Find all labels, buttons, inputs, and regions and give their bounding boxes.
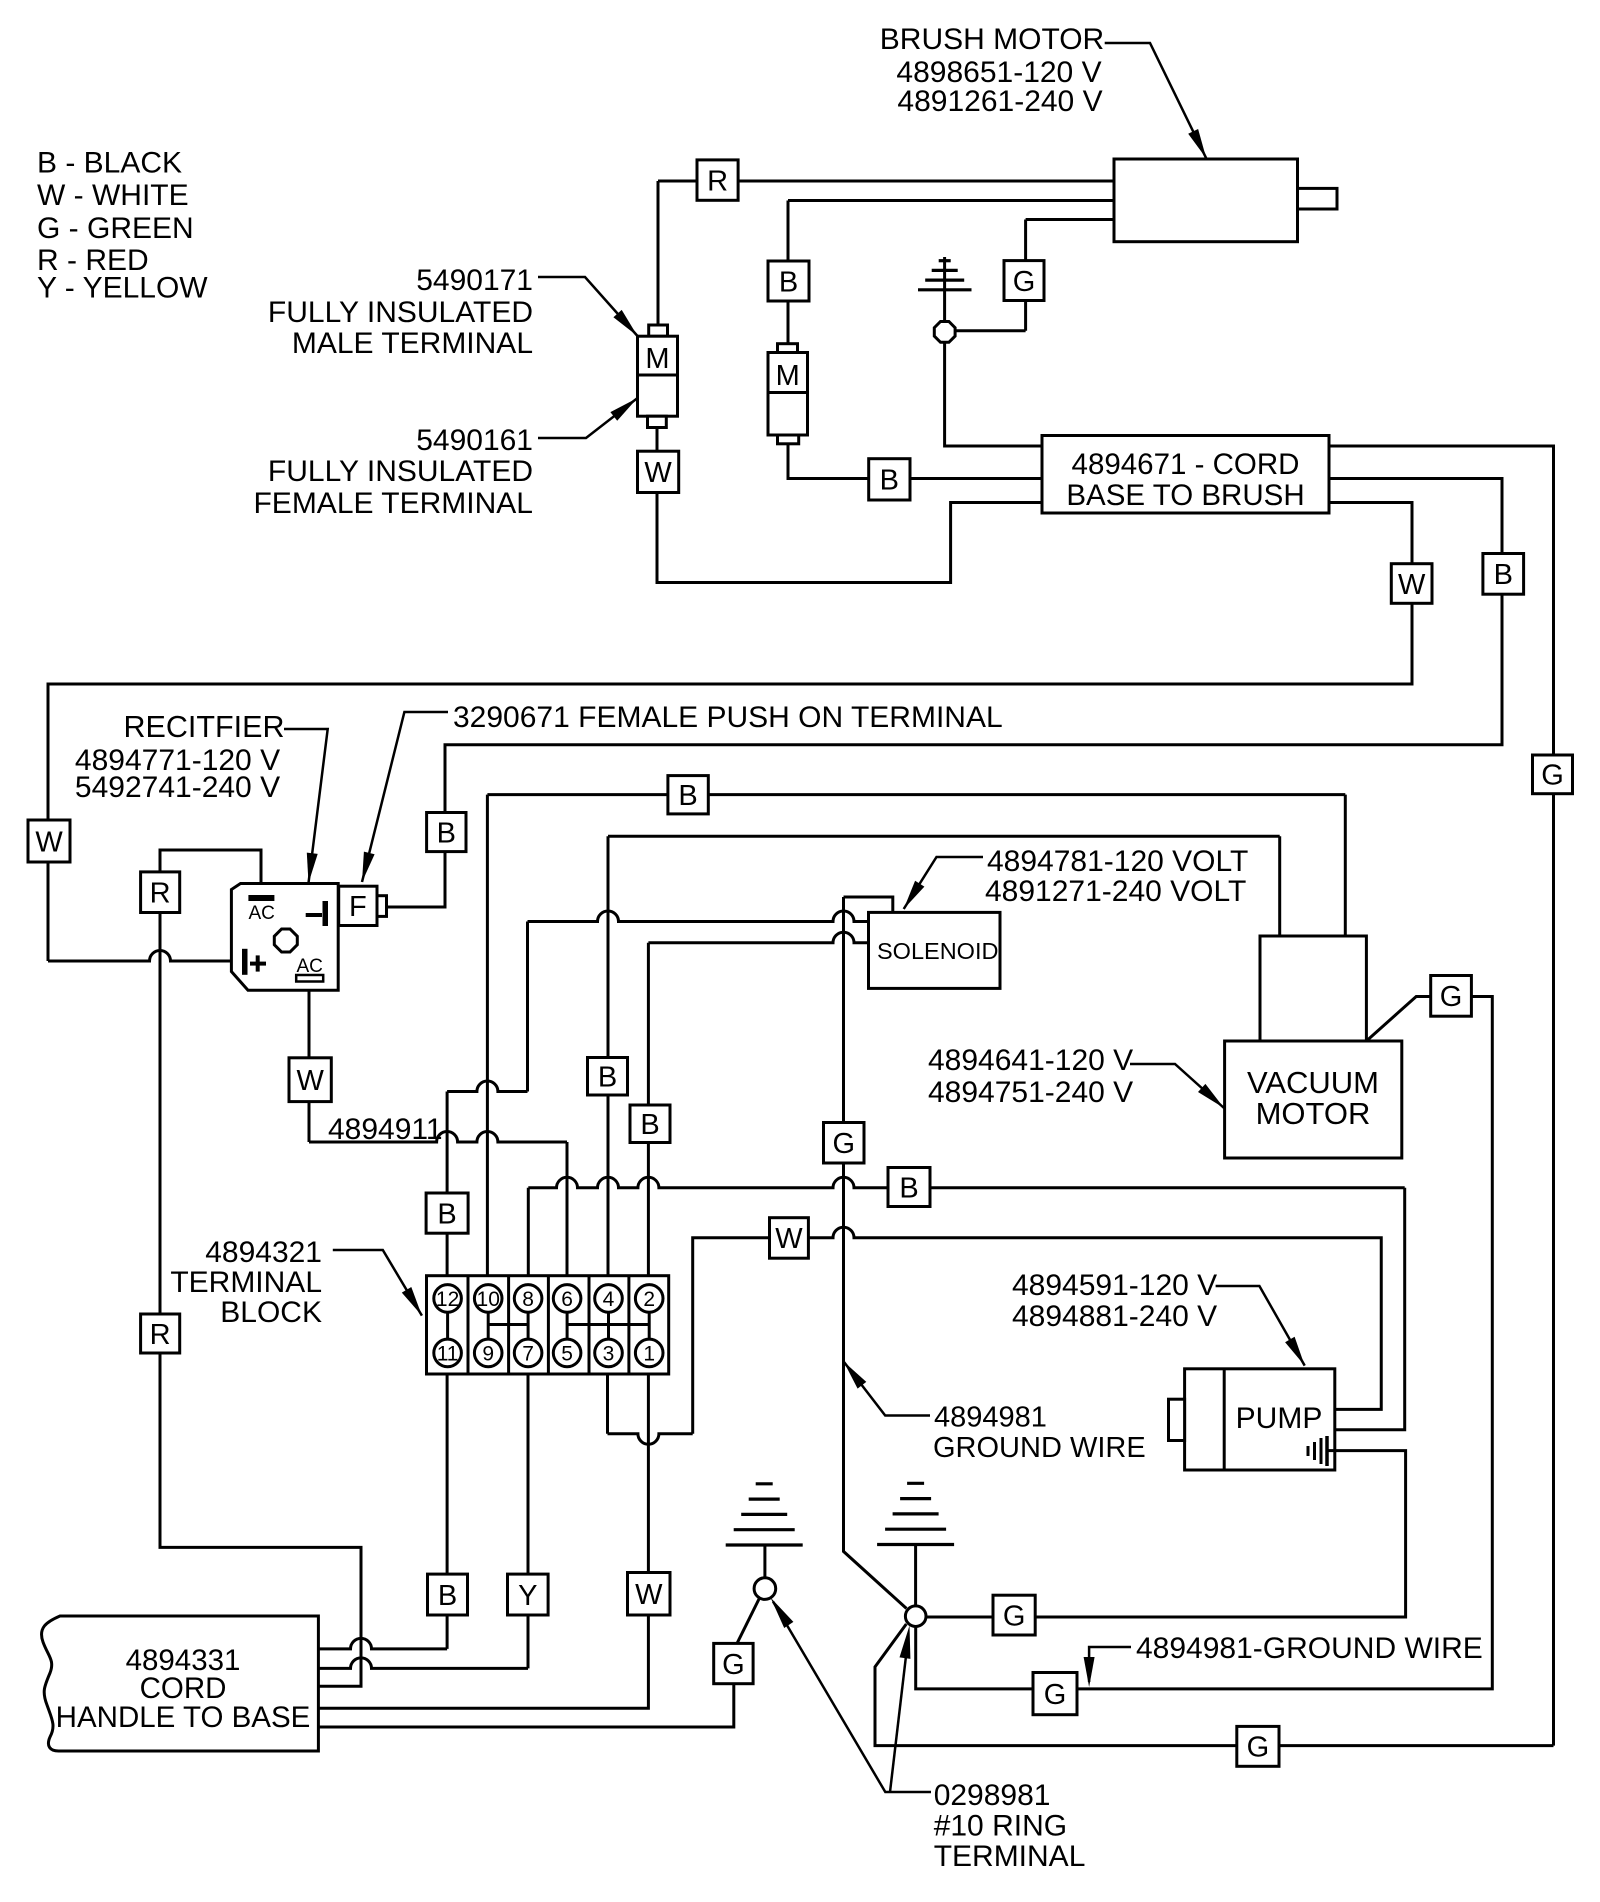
terminal 5490171 male cap bbox=[649, 325, 668, 336]
svg-text:4894751-240 V: 4894751-240 V bbox=[928, 1076, 1133, 1109]
wire black to cord handle box jump red bbox=[318, 1638, 447, 1649]
svg-text:BLOCK: BLOCK bbox=[220, 1296, 322, 1329]
wire black vacuum motor feed 1 bbox=[1344, 795, 1347, 937]
rectifier minus terminal bbox=[306, 913, 322, 917]
wire black col1 riser bbox=[446, 1092, 449, 1286]
leader ring terminal left bbox=[773, 1602, 931, 1793]
label box G vacuum bbox=[1431, 976, 1472, 1017]
svg-text:G: G bbox=[832, 1128, 855, 1160]
wire green vertical to G box bbox=[1024, 220, 1027, 331]
ground symbol top bbox=[918, 261, 972, 290]
wire black cord box right long loop bbox=[387, 479, 1503, 908]
svg-text:3290671 FEMALE PUSH ON TERMINA: 3290671 FEMALE PUSH ON TERMINAL bbox=[453, 701, 1003, 734]
svg-text:B: B bbox=[437, 1198, 456, 1230]
wire green octagon to G box bbox=[955, 329, 1026, 332]
svg-text:4894591-120 V: 4894591-120 V bbox=[1012, 1269, 1217, 1302]
label box B col1 bbox=[426, 1193, 468, 1233]
svg-text:MALE TERMINAL: MALE TERMINAL bbox=[292, 327, 533, 360]
terminal block 4894321 bbox=[427, 1276, 669, 1374]
wire red brush-motor top bbox=[658, 180, 1114, 183]
svg-text:4891271-240 VOLT: 4891271-240 VOLT bbox=[985, 875, 1246, 908]
terminal M2 top cap bbox=[778, 344, 798, 353]
octagon node bbox=[934, 322, 955, 343]
svg-text:G: G bbox=[1541, 760, 1564, 792]
svg-text:4891261-240 V: 4891261-240 V bbox=[897, 85, 1102, 118]
svg-text:4894671 - CORD: 4894671 - CORD bbox=[1072, 448, 1300, 481]
wire black col1 to col3 riser jumper bbox=[447, 1081, 527, 1092]
rectifier AC underline bbox=[296, 975, 323, 982]
leader rectifier bbox=[284, 729, 328, 883]
svg-text:B: B bbox=[1494, 559, 1513, 591]
wire black solenoid lower with jump bbox=[648, 932, 868, 943]
wire green solenoid top loop bbox=[844, 897, 893, 912]
rectifier AC bar top-left bbox=[248, 895, 274, 901]
svg-text:G - GREEN: G - GREEN bbox=[37, 212, 194, 245]
wire yellow col3 below block bbox=[527, 1353, 530, 1668]
svg-text:7: 7 bbox=[522, 1343, 534, 1366]
svg-text:B: B bbox=[598, 1062, 617, 1094]
cord base-to-brush box bbox=[1042, 436, 1329, 514]
svg-text:9: 9 bbox=[482, 1343, 494, 1366]
svg-text:11: 11 bbox=[437, 1343, 459, 1366]
svg-text:FEMALE TERMINAL: FEMALE TERMINAL bbox=[253, 487, 533, 520]
svg-text:R: R bbox=[150, 1319, 171, 1351]
svg-text:B - BLACK: B - BLACK bbox=[37, 147, 182, 180]
wire black line to vacuum bbox=[487, 793, 1345, 796]
svg-text:5: 5 bbox=[561, 1343, 573, 1366]
wire green octagon down to cord box bbox=[945, 342, 1042, 446]
svg-text:BASE TO BRUSH: BASE TO BRUSH bbox=[1066, 479, 1304, 512]
rectifier octagon bbox=[274, 929, 297, 952]
wire black col6 vertical bbox=[647, 943, 650, 1285]
svg-text:B: B bbox=[880, 465, 899, 497]
svg-text:TERMINAL: TERMINAL bbox=[170, 1266, 322, 1299]
terminal M2 bottom cap bbox=[778, 435, 799, 444]
wire white merge below block bbox=[608, 1434, 693, 1445]
svg-text:F: F bbox=[349, 891, 367, 923]
svg-text:RECITFIER: RECITFIER bbox=[124, 710, 285, 744]
vacuum motor main box bbox=[1225, 1041, 1402, 1158]
wire green vacuum diagonal bbox=[1366, 997, 1430, 1042]
label box B pump line bbox=[888, 1168, 930, 1207]
terminal block pins bottom row 11-1 bbox=[434, 1339, 462, 1367]
wire black brush-motor bbox=[788, 199, 1114, 202]
svg-text:M: M bbox=[776, 360, 800, 392]
wire black riser col3-solenoid bbox=[526, 922, 529, 1092]
svg-text:5490171: 5490171 bbox=[416, 264, 533, 297]
svg-text:PUMP: PUMP bbox=[1236, 1402, 1323, 1435]
svg-text:B: B bbox=[779, 266, 798, 298]
svg-text:G: G bbox=[1247, 1732, 1270, 1764]
svg-text:VACUUM: VACUUM bbox=[1247, 1065, 1379, 1100]
svg-text:FULLY INSULATED: FULLY INSULATED bbox=[268, 455, 533, 488]
wire green cord box to far right bbox=[1329, 446, 1554, 1746]
svg-text:0298981: 0298981 bbox=[934, 1779, 1051, 1812]
wire green pump ground run bbox=[926, 1451, 1406, 1617]
svg-text:4: 4 bbox=[603, 1288, 615, 1311]
label box W far left bbox=[28, 820, 70, 862]
terminal 5490161 female cap bbox=[648, 416, 667, 427]
terminal body M1 bbox=[638, 336, 678, 416]
pump ground symbol bbox=[1327, 1449, 1336, 1452]
wire white col6 below block bbox=[318, 1353, 648, 1708]
wire black down to pump bbox=[1335, 1188, 1405, 1430]
label box W M1 bbox=[638, 451, 679, 492]
label box W handle cord bbox=[628, 1573, 671, 1616]
wire green vacuum ground run bbox=[916, 997, 1493, 1689]
pump stub bbox=[1169, 1399, 1185, 1440]
label box G ring to pump bbox=[993, 1595, 1035, 1635]
svg-text:B: B bbox=[437, 817, 456, 849]
wire black col3 long run to pump bbox=[528, 1177, 1404, 1188]
svg-text:8: 8 bbox=[522, 1288, 534, 1311]
svg-text:G: G bbox=[1440, 981, 1463, 1013]
wire white cord box right to long run bbox=[48, 503, 1412, 962]
wire black col1 below block bbox=[446, 1353, 449, 1649]
leader solenoid bbox=[904, 857, 983, 909]
svg-text:Y: Y bbox=[518, 1580, 537, 1612]
label box B M2 lower bbox=[869, 459, 910, 500]
rectifier body bbox=[231, 884, 338, 991]
svg-text:B: B bbox=[640, 1109, 659, 1141]
svg-text:GROUND WIRE: GROUND WIRE bbox=[933, 1432, 1146, 1464]
leader ring terminal right bbox=[890, 1656, 906, 1792]
wire green solenoid vertical bbox=[844, 897, 907, 1609]
svg-text:Y - YELLOW: Y - YELLOW bbox=[37, 272, 208, 305]
terminal body M2 bbox=[768, 353, 808, 436]
svg-text:TERMINAL: TERMINAL bbox=[934, 1840, 1086, 1873]
leader terminal block bbox=[333, 1250, 422, 1316]
svg-text:4894781-120 VOLT: 4894781-120 VOLT bbox=[987, 845, 1248, 878]
svg-text:4894981-GROUND WIRE: 4894981-GROUND WIRE bbox=[1136, 1632, 1483, 1665]
rectifier plus terminal bbox=[242, 949, 248, 975]
label box W cord right bbox=[1391, 564, 1432, 604]
svg-text:B: B bbox=[899, 1172, 918, 1204]
label box G solenoid wire bbox=[824, 1123, 865, 1164]
svg-text:R: R bbox=[150, 878, 171, 910]
ground stem top bbox=[943, 257, 946, 322]
svg-text:BRUSH MOTOR: BRUSH MOTOR bbox=[880, 23, 1104, 56]
label box G bottom run bbox=[1237, 1726, 1279, 1766]
svg-text:5492741-240 V: 5492741-240 V bbox=[75, 771, 280, 804]
cord handle-to-base box bbox=[42, 1616, 319, 1751]
leader ground wire right bbox=[1089, 1647, 1131, 1682]
label box G brush bbox=[1004, 261, 1044, 301]
svg-text:W - WHITE: W - WHITE bbox=[37, 179, 189, 212]
leader vacuum bbox=[1130, 1064, 1224, 1108]
wire red long vertical bbox=[160, 913, 361, 1687]
label box B above F bbox=[427, 813, 466, 852]
svg-text:5490161: 5490161 bbox=[416, 424, 533, 457]
svg-text:G: G bbox=[1044, 1679, 1067, 1711]
svg-text:MOTOR: MOTOR bbox=[1256, 1096, 1371, 1131]
brush motor box bbox=[1114, 159, 1298, 242]
solenoid box bbox=[869, 912, 1001, 988]
wire white col5 to pump W box bbox=[693, 1238, 770, 1434]
svg-text:R: R bbox=[707, 165, 728, 197]
wire white rectifier to W box bbox=[308, 990, 311, 1142]
svg-text:HANDLE TO BASE: HANDLE TO BASE bbox=[56, 1701, 311, 1734]
label box G ring to vacuum bbox=[1033, 1673, 1077, 1715]
svg-text:4894911: 4894911 bbox=[328, 1113, 443, 1146]
terminal block pins top row 12-2 bbox=[434, 1285, 462, 1313]
ground symbol lower-right bbox=[877, 1483, 954, 1544]
svg-text:1: 1 bbox=[643, 1343, 655, 1366]
wire black M2 to cord box bbox=[788, 444, 1042, 479]
leader 3290671 bbox=[362, 712, 448, 882]
wire yellow to cord handle box jump red bbox=[318, 1658, 528, 1668]
svg-text:6: 6 bbox=[561, 1288, 573, 1311]
wire white col4 vertical bbox=[566, 1142, 569, 1285]
terminal F stub bbox=[377, 896, 387, 917]
wire white W box to pump bbox=[808, 1227, 1381, 1409]
pump box bbox=[1185, 1369, 1335, 1470]
leader 5490161 bbox=[538, 398, 638, 438]
ground symbol lower-left bbox=[726, 1484, 803, 1545]
svg-text:W: W bbox=[775, 1223, 803, 1255]
wire black col5 vertical bbox=[607, 836, 610, 1285]
svg-text:4894881-240 V: 4894881-240 V bbox=[1012, 1300, 1217, 1333]
wire black col2 vertical bbox=[486, 795, 489, 1285]
svg-text:B: B bbox=[678, 780, 697, 812]
svg-text:W: W bbox=[644, 457, 672, 489]
label box R rectifier bbox=[141, 872, 180, 913]
svg-text:3: 3 bbox=[603, 1343, 615, 1366]
leader brush motor bbox=[1105, 43, 1207, 158]
wire green bottom run bbox=[875, 1624, 1554, 1746]
wire black solenoid upper with jumps bbox=[528, 911, 869, 921]
label box B mid line bbox=[668, 776, 708, 814]
vacuum motor top box bbox=[1260, 936, 1366, 1041]
wire white below female terminal bbox=[657, 428, 1042, 583]
label box B handle cord bbox=[428, 1574, 468, 1615]
svg-text:M: M bbox=[645, 343, 669, 375]
svg-text:4894641-120 V: 4894641-120 V bbox=[928, 1044, 1133, 1077]
leader pump bbox=[1216, 1286, 1305, 1366]
pump divider bbox=[1223, 1369, 1226, 1470]
svg-text:FULLY INSULATED: FULLY INSULATED bbox=[268, 296, 533, 329]
wire red rectifier loop bbox=[160, 850, 261, 884]
svg-text:G: G bbox=[722, 1649, 745, 1681]
wire black vertical to M terminal bbox=[787, 201, 790, 345]
label box G handle cord bbox=[714, 1643, 753, 1683]
wire black line col5 to vacuum bbox=[608, 835, 1280, 838]
wire green left ring stem bbox=[763, 1545, 766, 1578]
svg-text:2: 2 bbox=[643, 1288, 655, 1311]
svg-text:AC: AC bbox=[249, 903, 275, 924]
wire black col3 riser bbox=[527, 1188, 530, 1285]
svg-text:W: W bbox=[296, 1065, 324, 1097]
terminal F box bbox=[339, 886, 377, 925]
label box B M2 bbox=[768, 261, 809, 301]
brush motor shaft stub bbox=[1298, 188, 1338, 209]
wire green cord handle box bbox=[318, 1684, 733, 1727]
leader ground wire left bbox=[844, 1362, 930, 1416]
svg-text:W: W bbox=[635, 1579, 663, 1611]
svg-text:#10 RING: #10 RING bbox=[934, 1810, 1067, 1843]
leader 5490171 bbox=[538, 277, 638, 336]
svg-text:4894981: 4894981 bbox=[934, 1402, 1047, 1434]
label box G far right bbox=[1533, 755, 1573, 794]
terminal block internal links bbox=[446, 1312, 449, 1339]
label box R lower bbox=[141, 1314, 180, 1353]
svg-text:4894321: 4894321 bbox=[205, 1236, 322, 1269]
svg-text:G: G bbox=[1013, 266, 1036, 298]
wire white col5 below block bbox=[606, 1353, 609, 1434]
label box R top bbox=[697, 160, 738, 200]
ring terminal node left bbox=[754, 1578, 776, 1600]
svg-text:10: 10 bbox=[477, 1288, 500, 1311]
wire green diagonal to left ring bbox=[737, 1598, 760, 1643]
label box W pump line bbox=[770, 1218, 809, 1259]
svg-text:G: G bbox=[1003, 1600, 1026, 1632]
wire red vertical to male terminal bbox=[657, 181, 660, 325]
label box B col5 bbox=[588, 1058, 628, 1096]
wire green right ring stem bbox=[914, 1545, 917, 1607]
svg-text:W: W bbox=[35, 826, 63, 858]
label box B col6 bbox=[630, 1105, 670, 1143]
label box Y handle cord bbox=[508, 1574, 549, 1615]
label box B far right bbox=[1483, 554, 1524, 595]
label box W below rectifier bbox=[289, 1058, 331, 1102]
svg-text:W: W bbox=[1398, 569, 1426, 601]
svg-text:12: 12 bbox=[436, 1288, 459, 1311]
wire black vacuum motor feed 2 bbox=[1278, 836, 1281, 937]
svg-text:SOLENOID: SOLENOID bbox=[877, 938, 998, 964]
wire white into rectifier with jump over red bbox=[48, 951, 231, 962]
ring terminal node right bbox=[905, 1606, 926, 1627]
svg-text:B: B bbox=[438, 1580, 457, 1612]
wire green brush-motor bbox=[1026, 218, 1114, 221]
wire white 4894911 run bbox=[309, 1132, 567, 1143]
